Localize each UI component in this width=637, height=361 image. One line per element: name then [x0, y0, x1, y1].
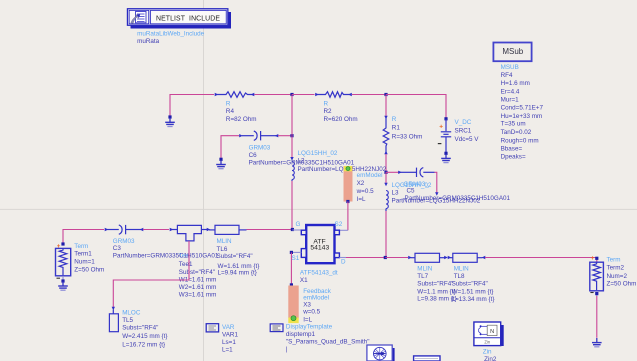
svg-text:D: D: [341, 258, 346, 265]
svg-text:V_DC: V_DC: [455, 119, 472, 126]
svg-text:C6: C6: [249, 152, 258, 159]
tee junction Tee1: [170, 225, 211, 241]
capacitor C3: [105, 225, 144, 234]
svg-text:Term1: Term1: [74, 250, 92, 257]
svg-text:disptemp1: disptemp1: [286, 331, 316, 338]
svg-text:Subst="RF4": Subst="RF4": [122, 324, 158, 331]
svg-text:Term2: Term2: [607, 265, 625, 272]
svg-text:Term: Term: [74, 243, 88, 250]
svg-text:Zin: Zin: [483, 348, 492, 355]
node (292.4,229.5) gate: [291, 228, 294, 231]
netlist include block: [127, 9, 231, 29]
MLIN TL7: [408, 253, 448, 262]
svg-text:R=82 Ohm: R=82 Ohm: [226, 116, 257, 123]
svg-text:DisplayTemplate: DisplayTemplate: [286, 323, 333, 330]
node (292,94.5): [290, 93, 293, 96]
svg-text:Subst="RF4": Subst="RF4": [217, 253, 253, 260]
svg-text:SRC1: SRC1: [455, 127, 472, 134]
ground (top-left): [165, 118, 175, 127]
svg-text:Num=1: Num=1: [74, 259, 95, 266]
wire rail x292 from top rail to C6 node: [291, 95, 293, 136]
svg-text:W2=1.61 mm: W2=1.61 mm: [179, 284, 217, 291]
svg-text:Mur=1: Mur=1: [501, 97, 520, 104]
svg-text:R: R: [324, 101, 329, 108]
svg-text:Rough=0 mm: Rough=0 mm: [501, 137, 539, 144]
resistor R1: [383, 95, 389, 173]
V_DC source SRC1: [438, 117, 451, 155]
svg-text:PartNumber=GRM0335C1H510GA01: PartNumber=GRM0335C1H510GA01: [113, 252, 219, 259]
wire L2 to gate node: [291, 181, 293, 230]
grid vertical line: [203, 0, 205, 361]
wire C6 to node: [278, 135, 292, 137]
wire node to L2: [291, 136, 293, 158]
svg-text:muRata: muRata: [137, 38, 160, 45]
svg-text:C5: C5: [407, 187, 416, 194]
svg-text:Subst="RF4": Subst="RF4": [452, 281, 488, 288]
svg-text:I=L: I=L: [303, 316, 312, 323]
wire: left ground stub top rail: [170, 95, 214, 117]
svg-text:S2: S2: [335, 221, 343, 228]
svg-text:R: R: [392, 116, 397, 123]
svg-text:L=9.94 mm {t}: L=9.94 mm {t}: [218, 270, 257, 277]
capacitor C6: [239, 131, 278, 140]
svg-text:NETLIST INCLUDE: NETLIST INCLUDE: [156, 15, 220, 22]
svg-text:TanD=0.02: TanD=0.02: [501, 129, 532, 136]
svg-text:W3=1.61 mm: W3=1.61 mm: [179, 291, 217, 298]
svg-text:W=1.1 mm {t}: W=1.1 mm {t}: [417, 289, 455, 296]
pin wire to G: [292, 229, 301, 231]
svg-text:I=L: I=L: [357, 196, 366, 203]
wire node to V_DC corner: [386, 95, 446, 118]
svg-text:G: G: [296, 221, 301, 228]
transistor ATF54143 X1: [301, 225, 339, 263]
emModel X3 rect: [288, 286, 298, 324]
svg-text:MLIN: MLIN: [417, 265, 432, 272]
svg-text:R=33 Ohm: R=33 Ohm: [392, 134, 423, 141]
svg-text:L=13.34 mm {t}: L=13.34 mm {t}: [452, 296, 495, 303]
wire R2 to node: [352, 94, 386, 96]
svg-text:+: +: [591, 255, 595, 262]
svg-text:Subst="RF4": Subst="RF4": [179, 269, 215, 276]
svg-text:Cond=5.71E+7: Cond=5.71E+7: [501, 104, 544, 111]
svg-text:X1: X1: [300, 277, 308, 284]
wire R4 to node: [255, 94, 293, 96]
svg-text:X2: X2: [357, 180, 365, 187]
wire node to R2: [292, 94, 315, 96]
ground (Term1): [58, 281, 68, 290]
MLOC TL5: [109, 307, 118, 332]
wire: C6 ground stub: [221, 136, 239, 159]
svg-text:Ls=1: Ls=1: [222, 339, 236, 346]
wire S1 to X3: [290, 251, 302, 287]
svg-text:VAR1: VAR1: [222, 331, 238, 338]
svg-text:Num=2: Num=2: [607, 273, 628, 280]
svg-text:w=0.5: w=0.5: [356, 188, 374, 195]
svg-text:MLIN: MLIN: [217, 238, 232, 245]
svg-text:Zin: Zin: [484, 339, 490, 344]
Zin icon: [474, 322, 504, 346]
wire C3 to Tee1: [143, 229, 169, 231]
svg-text:MSUB: MSUB: [501, 64, 519, 71]
svg-text:MLOC: MLOC: [122, 310, 141, 317]
svg-text:Z=50 Ohm: Z=50 Ohm: [607, 281, 637, 288]
svg-text:+: +: [439, 124, 443, 131]
svg-text:Dpeaks=: Dpeaks=: [501, 154, 526, 161]
node (386,172.3): [384, 171, 387, 174]
resistor R2: [315, 92, 352, 98]
svg-text:TL5: TL5: [122, 317, 133, 324]
svg-text:R=620 Ohm: R=620 Ohm: [324, 116, 358, 123]
svg-text:w=0.5: w=0.5: [302, 308, 320, 315]
wire node to TL7: [385, 257, 408, 259]
emModel X2 rect: [344, 166, 353, 202]
svg-text:LQG15HH_02: LQG15HH_02: [298, 150, 338, 157]
MLIN TL6: [209, 225, 247, 234]
svg-text:R1: R1: [392, 125, 401, 132]
svg-text:MSub: MSub: [502, 47, 523, 56]
svg-text:Er=4.4: Er=4.4: [501, 89, 520, 96]
svg-text:W=2.415 mm {t}: W=2.415 mm {t}: [122, 333, 167, 340]
VAR icon: [206, 324, 218, 332]
svg-text:Subst="RF4": Subst="RF4": [417, 281, 453, 288]
Term2: [590, 255, 604, 338]
wire node down to L3: [385, 172, 387, 183]
node (385.3,257.5): [384, 256, 387, 259]
node (292,135.7): [290, 134, 293, 137]
svg-text:VAR: VAR: [222, 324, 235, 331]
svg-text:PartNumber=GRM0335C1H510GA01: PartNumber=GRM0335C1H510GA01: [405, 195, 511, 202]
wire X2 down to S2: [339, 200, 349, 230]
svg-text:Term: Term: [607, 256, 621, 263]
node (386,94.5): [384, 93, 387, 96]
svg-text:L=16.72 mm {t}: L=16.72 mm {t}: [122, 341, 165, 348]
svg-text:RF4: RF4: [501, 72, 513, 79]
svg-text:H=1.6 mm: H=1.6 mm: [501, 80, 530, 87]
inductor L3: [384, 183, 388, 211]
svg-text:R: R: [226, 100, 231, 107]
svg-text:W=1.51 mm {t}: W=1.51 mm {t}: [452, 289, 494, 296]
bottom partial icon: [414, 356, 440, 361]
svg-text:Zin2: Zin2: [484, 356, 497, 361]
svg-text:T=35 um: T=35 um: [501, 121, 526, 128]
svg-text:TL6: TL6: [217, 246, 228, 253]
svg-text:C3: C3: [113, 245, 122, 252]
wire L3 to drain node: [385, 211, 387, 258]
wire TL6 to gate node: [247, 229, 293, 231]
MSub box: [493, 43, 531, 62]
ground (Term2): [592, 338, 602, 347]
svg-text:L=1: L=1: [222, 347, 233, 354]
svg-text:Vdc=5 V: Vdc=5 V: [455, 136, 480, 143]
svg-text:MLIN: MLIN: [454, 265, 469, 272]
svg-text:ATF54143_dt: ATF54143_dt: [300, 269, 338, 276]
ground (V_DC): [441, 154, 451, 163]
svg-text:L3: L3: [392, 189, 400, 196]
inductor L2: [290, 157, 294, 181]
svg-text:GRM03: GRM03: [249, 144, 271, 151]
wire: Term1 corner to C3: [63, 230, 104, 244]
svg-text:R4: R4: [226, 108, 235, 115]
resistor R4: [215, 92, 255, 98]
capacitor C5: [386, 168, 439, 196]
Term1: [56, 242, 71, 285]
svg-text:N: N: [490, 329, 494, 335]
ground (C6): [216, 160, 226, 169]
svg-text:TL8: TL8: [454, 273, 465, 280]
wire TL8 to Term2: [485, 258, 597, 262]
svg-text:emModel: emModel: [303, 295, 329, 302]
DisplayTemplate icon: [270, 324, 283, 332]
svg-text:emModel: emModel: [357, 172, 383, 179]
MLIN TL8: [448, 253, 486, 262]
Smith chart icon: [367, 345, 395, 361]
wire Tee1 stem to MLOC: [113, 241, 189, 307]
svg-text:"S_Params_Quad_dB_Smith": "S_Params_Quad_dB_Smith": [286, 338, 370, 345]
svg-text:Tee1: Tee1: [179, 261, 193, 268]
grid horizontal line: [0, 208, 637, 210]
svg-text:S1: S1: [292, 255, 300, 262]
svg-text:TL7: TL7: [417, 273, 428, 280]
svg-text:Bbase=: Bbase=: [501, 146, 523, 153]
wire D to node: [339, 257, 346, 259]
svg-text:GRM03: GRM03: [113, 238, 135, 245]
svg-text:Hu=1e+33 mm: Hu=1e+33 mm: [501, 113, 543, 120]
svg-text:muRataLibWeb_Include: muRataLibWeb_Include: [137, 30, 205, 37]
svg-text:R2: R2: [324, 108, 333, 115]
svg-text:Z=50 Ohm: Z=50 Ohm: [74, 267, 104, 274]
svg-text:54143: 54143: [310, 245, 329, 252]
